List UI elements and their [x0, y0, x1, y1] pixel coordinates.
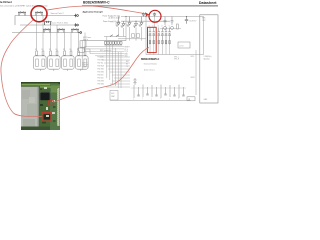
svg-text:P3_4: P3_4 — [125, 51, 129, 53]
diode D3 — [139, 17, 144, 28]
red rect mid — [148, 27, 157, 52]
svg-text:Source Path 1 (5V): Source Path 1 (5V) — [50, 21, 68, 24]
wire under array — [146, 54, 204, 56]
wire left riser — [14, 16, 16, 26]
transistor QA4 — [161, 28, 164, 45]
resistor R4 — [56, 51, 58, 55]
component boxes row — [132, 34, 135, 38]
wire bus B — [121, 20, 170, 22]
wires mid verticals — [118, 17, 146, 55]
wire top bus A — [121, 16, 204, 18]
driver block U4 — [40, 56, 88, 71]
driver block U1 — [34, 56, 47, 69]
wires resistor to driver — [37, 54, 85, 57]
wire left drop — [81, 41, 83, 70]
diode D2 — [133, 21, 138, 28]
connector T3 — [78, 32, 82, 34]
wire row3 — [12, 32, 78, 34]
svg-text:Application Example: Application Example — [83, 10, 104, 13]
transistor QA3 — [157, 28, 160, 45]
svg-text:OUT: OUT — [202, 20, 206, 22]
uart text block — [82, 61, 89, 68]
bottom pins — [134, 85, 184, 99]
svg-text:C: C — [151, 99, 152, 101]
switch S1 — [110, 35, 113, 37]
svg-text:BM62A50MWV-C: BM62A50MWV-C — [141, 58, 160, 61]
wire right vert — [195, 50, 197, 95]
capacitor C10 — [185, 17, 188, 24]
transistor Q1 — [18, 11, 26, 15]
right label rows — [191, 56, 196, 79]
svg-text:Datasheet: Datasheet — [199, 1, 217, 5]
transistor Q4 — [43, 28, 51, 32]
red arc left — [1, 20, 42, 117]
connector block J2b — [78, 48, 90, 54]
red arrow top — [46, 6, 147, 14]
svg-text:P02 SCL: P02 SCL — [98, 63, 104, 65]
red curve to rect — [54, 48, 150, 103]
IC bottom edge — [131, 87, 187, 89]
driver block U2 — [48, 56, 61, 69]
capacitor C1 — [142, 12, 145, 16]
wire sw line — [104, 36, 126, 38]
svg-text:Bluetooth Module: Bluetooth Module — [144, 63, 157, 66]
svg-text:Speaker: Speaker — [204, 58, 211, 61]
svg-text:C: C — [169, 99, 170, 101]
svg-text:RX: RX — [126, 64, 128, 66]
transistor QR1 — [164, 17, 167, 30]
svg-text:C: C — [142, 98, 143, 100]
svg-text:C: C — [160, 98, 161, 100]
PCB photo — [21, 82, 60, 130]
svg-text:P00 TXD: P00 TXD — [98, 57, 105, 59]
svg-text:10uF/25V: 10uF/25V — [189, 21, 197, 23]
resistor R1 — [36, 51, 38, 55]
svg-text:P06 LED: P06 LED — [98, 75, 105, 77]
svg-text:P2_0: P2_0 — [125, 49, 129, 51]
filter block F1 — [178, 42, 190, 48]
resistor R7 — [78, 51, 80, 55]
svg-text:P01 RXD: P01 RXD — [98, 60, 105, 62]
gpio labels — [98, 57, 105, 86]
svg-text:P04 SW1: P04 SW1 — [98, 69, 105, 71]
svg-text:P08 SW3: P08 SW3 — [98, 81, 105, 83]
diode D0b — [121, 21, 126, 28]
svg-text:BD82A50MWV-C: BD82A50MWV-C — [83, 1, 110, 5]
resistor R5 — [64, 51, 66, 55]
IC left pin text — [126, 61, 129, 68]
svg-text:RESET: RESET — [125, 47, 130, 49]
gpio rows — [100, 57, 130, 87]
wire row1 — [15, 15, 74, 17]
transistor QA6 — [168, 28, 171, 45]
wire circle to rect — [154, 17, 156, 28]
header rule — [82, 5, 218, 6]
connector block J2 — [80, 41, 86, 48]
svg-text:P09 SW4: P09 SW4 — [98, 84, 105, 86]
red circle right — [149, 10, 161, 22]
svg-text:le Driver: le Driver — [0, 0, 13, 4]
resistor RR1 — [177, 24, 179, 29]
power labels — [103, 15, 121, 25]
svg-text:Source Path 2: Source Path 2 — [51, 12, 65, 15]
svg-text:RST: RST — [126, 61, 129, 63]
wire right mid — [160, 28, 181, 30]
speaker block — [200, 15, 218, 103]
switch S2 — [116, 35, 119, 37]
svg-text:C: C — [178, 98, 179, 100]
capacitor C2 (red circled) — [153, 12, 156, 16]
diode D0 — [116, 17, 121, 28]
connector T2 — [74, 23, 78, 26]
pcb small parts — [40, 104, 43, 106]
svg-text:P07 LED: P07 LED — [98, 78, 105, 80]
red circle left — [31, 6, 47, 22]
transistor Q2 (circled) — [35, 11, 43, 15]
wire rows to IC — [84, 47, 124, 56]
transistor QA1 — [149, 28, 152, 45]
ferrite bead FB1 — [187, 97, 195, 101]
wire right drop — [203, 17, 205, 55]
transistor Q6 — [71, 28, 79, 32]
junction dots — [125, 16, 187, 22]
bottom pin labels — [133, 98, 179, 101]
IC right pin text — [174, 57, 180, 61]
red rect pcb2 — [42, 113, 51, 122]
connector T1 — [74, 14, 78, 17]
wire esd bottom — [104, 44, 122, 46]
svg-text:C: C — [133, 99, 134, 101]
resistor labels row — [35, 49, 86, 51]
wire mid bus — [82, 40, 126, 42]
row labels — [125, 47, 130, 58]
gate drop wires — [37, 16, 85, 52]
diode D1 — [127, 17, 132, 28]
array column drops — [150, 44, 170, 55]
svg-text:TX: TX — [126, 66, 128, 68]
transistor QA5 — [165, 28, 168, 45]
resistor R6 — [70, 51, 72, 55]
array lower elements — [149, 41, 170, 44]
ESD diode array — [104, 41, 122, 45]
bottom caps — [137, 94, 184, 96]
transistor QR2 — [171, 17, 174, 30]
transistor QA2 — [152, 28, 155, 45]
svg-text:SPK_L: SPK_L — [174, 57, 179, 59]
terminal box TB1 — [110, 91, 118, 101]
resistor R8 — [84, 51, 86, 55]
transistor array labels — [149, 26, 171, 28]
battery symbol — [133, 78, 136, 85]
left mid text — [83, 36, 91, 41]
driver box stubs — [40, 69, 81, 71]
bus verticals — [107, 37, 121, 89]
resistor R3 — [50, 51, 52, 55]
red rect pcb1 — [49, 101, 54, 106]
transistor Q5 — [57, 28, 65, 32]
svg-text:VBUS 5V: VBUS 5V — [82, 66, 88, 68]
wire row2 — [20, 24, 74, 26]
svg-text:LC filt: LC filt — [179, 44, 184, 47]
bottom bus — [110, 99, 191, 101]
svg-text:P05 SW2: P05 SW2 — [98, 72, 105, 74]
chip IC1 — [41, 93, 50, 101]
transistor Q3 — [44, 21, 52, 25]
resistor R2 — [42, 51, 44, 55]
driver block U3 — [62, 56, 75, 69]
svg-text:SPKL: SPKL — [191, 56, 195, 58]
